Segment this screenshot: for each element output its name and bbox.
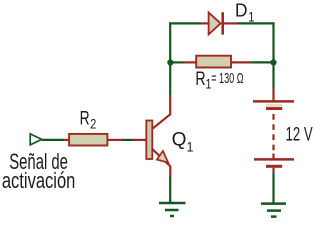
transistor Q1	[133, 95, 170, 177]
svg-text:R: R	[80, 107, 90, 129]
resistor R1	[184, 56, 250, 68]
svg-text:2: 2	[90, 116, 96, 132]
wire right vertical (top rail to battery)	[272, 22, 274, 88]
wire top rail right segment	[237, 22, 274, 24]
wire R1 branch right stub	[250, 61, 274, 63]
ground right	[261, 204, 286, 217]
label D1	[235, 0, 255, 24]
svg-text:= 130 Ω: = 130 Ω	[211, 71, 243, 87]
svg-text:12 V: 12 V	[286, 125, 313, 146]
node junction left	[167, 59, 173, 65]
svg-text:1: 1	[187, 138, 194, 154]
svg-text:activación: activación	[2, 168, 76, 193]
wire left vertical (top rail to collector)	[169, 23, 171, 95]
battery BAT1 12V	[253, 89, 294, 173]
node junction right	[270, 59, 276, 65]
wire emitter to ground	[169, 177, 171, 203]
resistor R2	[64, 134, 122, 146]
ground left (emitter)	[159, 203, 186, 216]
input terminal (signal)	[30, 134, 42, 145]
label R2	[80, 107, 97, 131]
svg-text:1: 1	[248, 8, 254, 24]
label Q1	[172, 129, 194, 155]
svg-text:Q: Q	[172, 129, 187, 151]
wire R2 to base	[122, 139, 133, 141]
svg-text:R: R	[195, 68, 205, 90]
diode D1	[201, 12, 237, 34]
label R1 value	[195, 68, 243, 91]
wire terminal to R2	[42, 139, 64, 141]
label Señal de activación	[2, 149, 76, 193]
svg-text:D: D	[235, 0, 248, 21]
wire battery to ground	[272, 172, 274, 203]
wire R1 branch left stub	[170, 61, 184, 63]
wire top rail left segment	[169, 22, 201, 24]
